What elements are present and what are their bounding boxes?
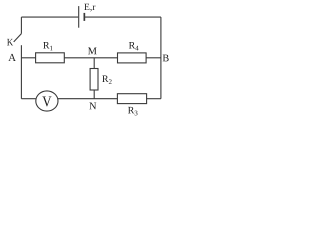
wire: R4 to B (146, 57, 161, 59)
label R1 (43, 42, 52, 50)
node A label (8, 54, 16, 61)
node B label (163, 55, 169, 62)
wire: M down to R2 (93, 58, 95, 69)
label K (7, 39, 13, 46)
wire: bottom-left corner to voltmeter (21, 98, 35, 100)
wire: voltmeter to N to R3 (58, 98, 117, 100)
wire: left side upper (to switch K) (20, 17, 22, 33)
battery E,r long plate (78, 6, 80, 28)
voltmeter V circle (36, 91, 58, 111)
resistor R2 (90, 69, 98, 91)
wire: R3 to bottom-right corner (147, 98, 161, 100)
wire: top-left corner to battery (21, 16, 78, 18)
resistor R3 (117, 94, 146, 104)
battery E,r short plate (83, 13, 85, 21)
wire: right side (B branch) (160, 17, 162, 99)
resistor R1 (36, 53, 65, 63)
wire: battery to top-right corner (85, 16, 161, 18)
label R2 (102, 76, 111, 84)
wire: R2 down to N junction (93, 90, 95, 99)
wire: A to R1 (21, 57, 35, 59)
voltmeter V letter (42, 96, 51, 106)
switch K blade (14, 34, 22, 42)
label E,r (84, 4, 95, 12)
resistor R4 (118, 53, 147, 63)
node M label (88, 47, 97, 54)
wire: left side lower (switch to bottom corner) (20, 45, 22, 98)
wire: R1 to M to R4 (64, 57, 117, 59)
label R3 (128, 107, 138, 115)
node N label (89, 102, 96, 109)
label R4 (129, 42, 139, 50)
